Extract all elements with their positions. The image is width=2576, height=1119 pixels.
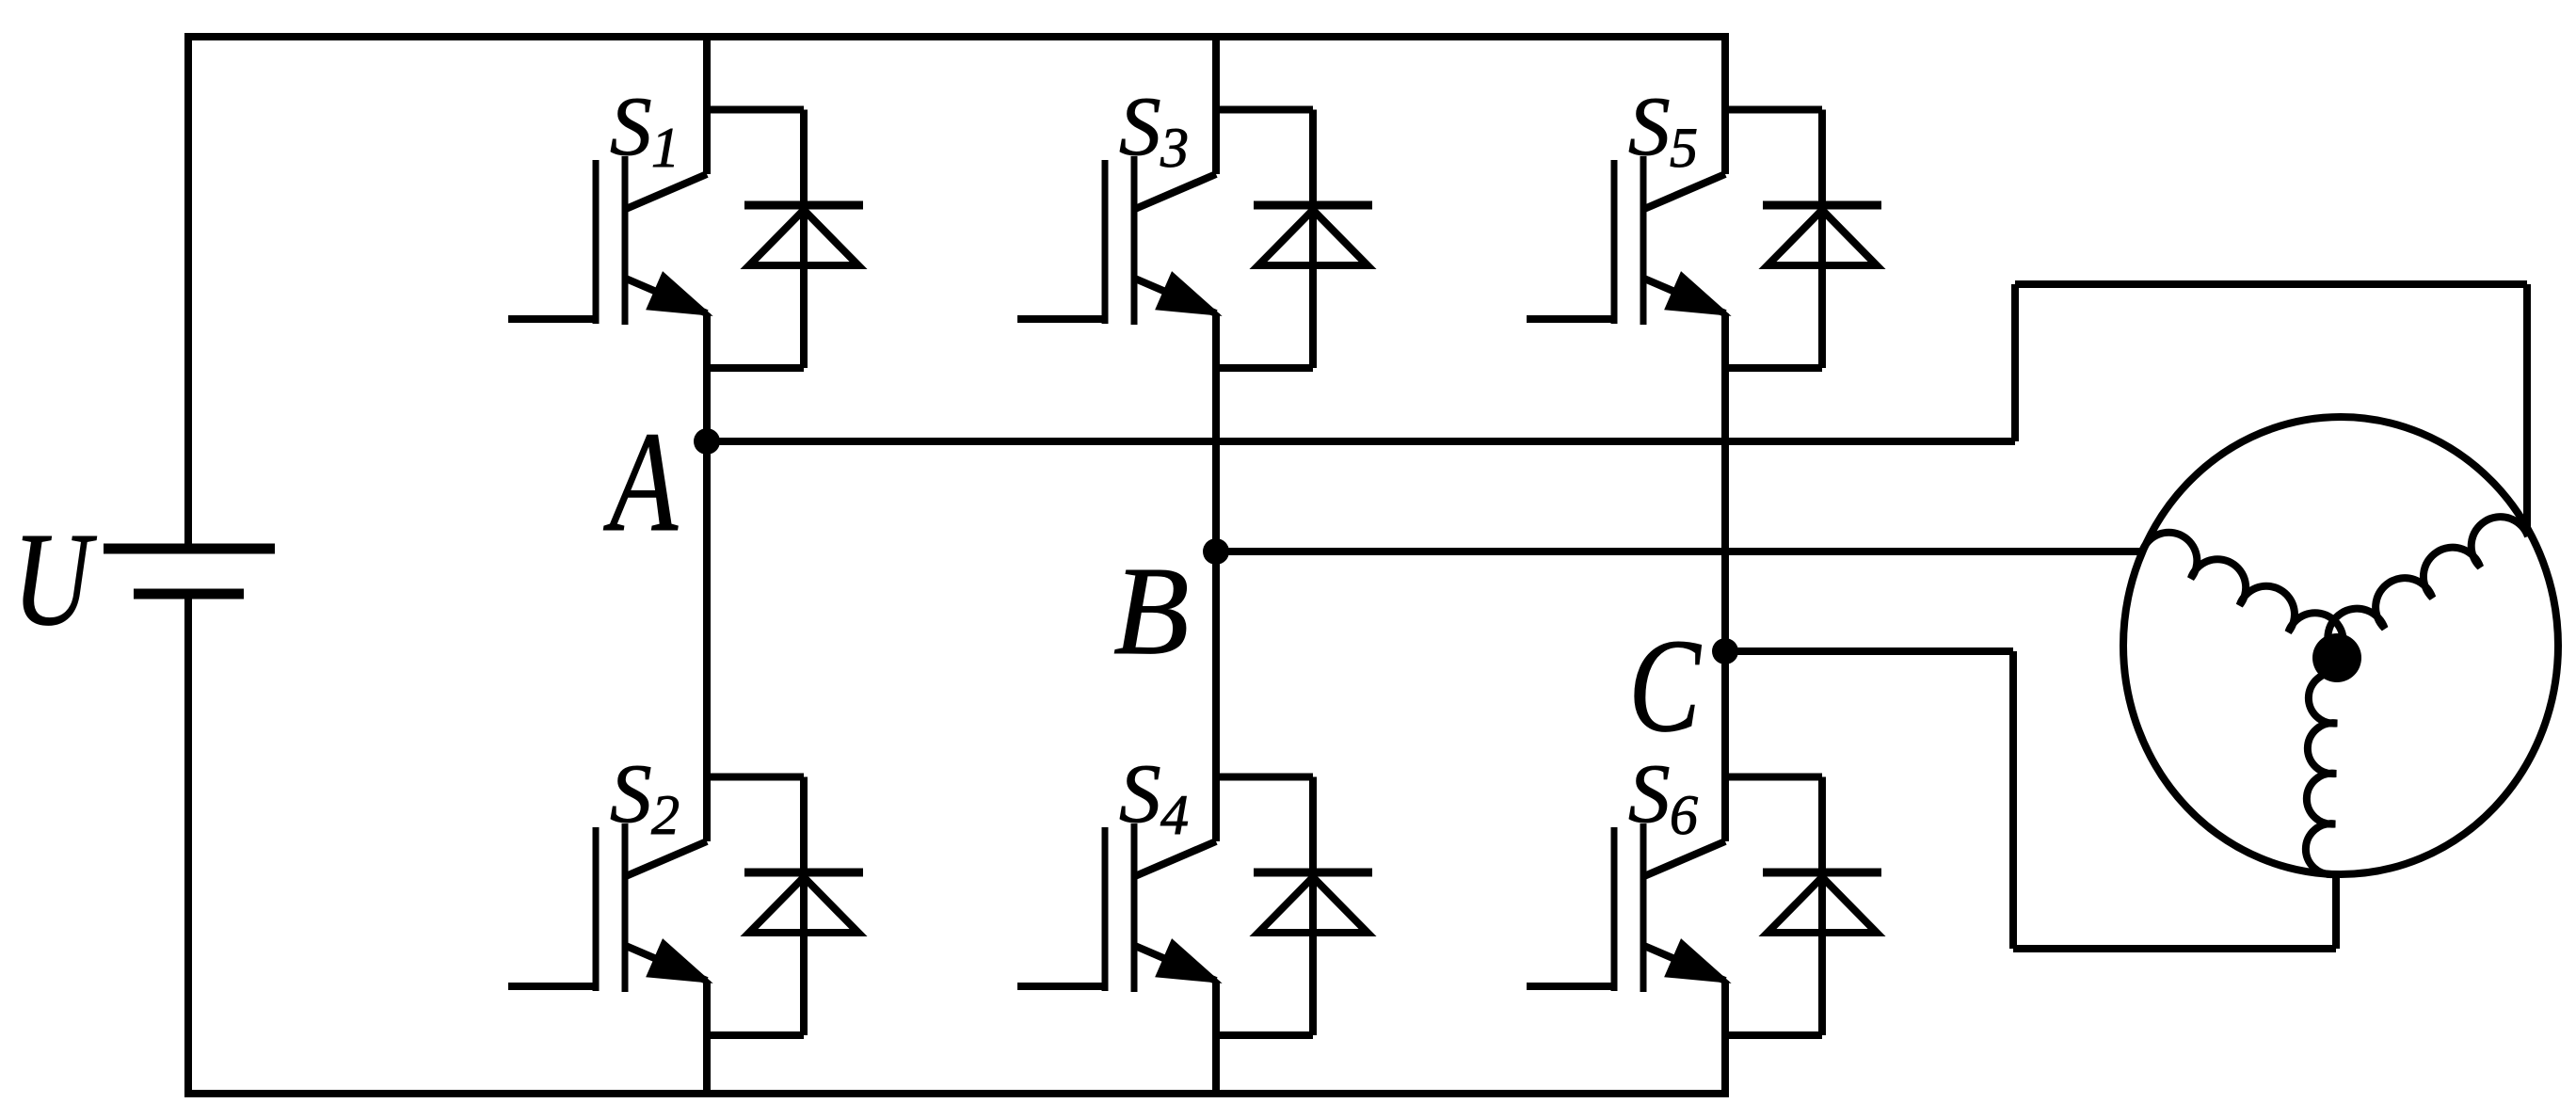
svg-text:4: 4	[1160, 784, 1189, 846]
svg-text:S: S	[1119, 81, 1161, 173]
svg-text:5: 5	[1670, 117, 1698, 179]
svg-text:B: B	[1113, 540, 1189, 680]
svg-text:3: 3	[1160, 117, 1189, 179]
svg-text:S: S	[610, 748, 652, 840]
svg-text:2: 2	[651, 784, 680, 846]
svg-text:6: 6	[1670, 784, 1698, 846]
svg-text:S: S	[1119, 748, 1161, 840]
svg-text:U: U	[13, 505, 98, 653]
svg-text:S: S	[1628, 81, 1671, 173]
svg-text:C: C	[1628, 611, 1702, 759]
svg-text:S: S	[610, 81, 652, 173]
svg-text:S: S	[1628, 748, 1671, 840]
svg-text:A: A	[603, 402, 679, 562]
svg-text:1: 1	[651, 117, 680, 179]
